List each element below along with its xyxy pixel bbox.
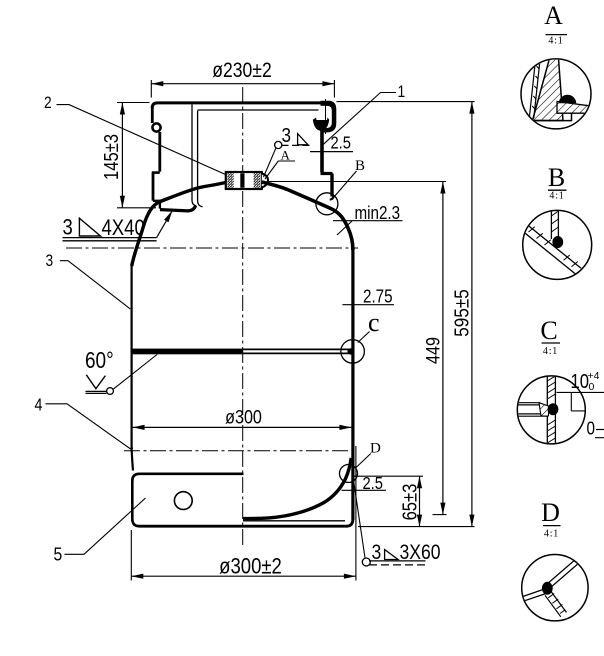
foot ring bottom-right corner bbox=[347, 519, 353, 526]
weld symbol 60° (girth seam) bbox=[85, 348, 157, 394]
fillet weld bead (black) bbox=[559, 95, 577, 103]
boss weld bump bbox=[262, 174, 268, 188]
shroud right wall lower bbox=[330, 174, 333, 197]
shroud inner silhouette line 2 bbox=[198, 111, 203, 207]
lower shell wall band bbox=[546, 375, 548, 445]
boss bore bar bbox=[240, 173, 244, 187]
bottom dome plate (double line, upper right) bbox=[547, 556, 581, 585]
shroud bottom notch bbox=[153, 201, 160, 209]
svg-text:3: 3 bbox=[282, 125, 292, 148]
shroud top edge bbox=[152, 103, 327, 108]
detail view C bbox=[516, 316, 604, 445]
dim 145±3 bbox=[100, 103, 156, 208]
grip bar cup bbox=[313, 118, 329, 131]
lower horizontal dash-dot axis bbox=[124, 450, 355, 452]
svg-text:60°: 60° bbox=[85, 348, 114, 373]
weld symbol 3/3X60 (foot to dome) bbox=[354, 480, 441, 566]
balloon 3 bbox=[46, 252, 131, 309]
dim 595±5 bbox=[337, 102, 475, 527]
detail circle D marker bbox=[340, 465, 358, 483]
body right wall bbox=[351, 248, 354, 520]
detail label B leader bbox=[334, 158, 366, 198]
svg-text:65±3: 65±3 bbox=[398, 484, 421, 521]
detail circle C marker bbox=[341, 340, 365, 364]
svg-text:4:1: 4:1 bbox=[548, 36, 563, 47]
foot ring inner line (exterior half) bbox=[243, 520, 345, 522]
bottom dome silhouette bbox=[243, 458, 351, 519]
detail view D bbox=[520, 498, 588, 621]
foot ring bottom-left corner bbox=[132, 519, 139, 526]
svg-text:5: 5 bbox=[54, 543, 63, 565]
thickness callout 2.75 (shell) bbox=[342, 286, 394, 307]
balloon 4 bbox=[35, 396, 132, 449]
svg-text:2: 2 bbox=[44, 94, 52, 112]
foot ring wall band (ladder, lower right) bbox=[551, 591, 567, 613]
svg-text:A: A bbox=[281, 148, 291, 163]
boss knurl right bbox=[254, 173, 260, 188]
weld nugget bbox=[548, 403, 559, 415]
girth weld seam left (section) bbox=[132, 349, 243, 355]
svg-text:1: 1 bbox=[398, 83, 406, 101]
svg-text:2.5: 2.5 bbox=[331, 133, 351, 153]
shroud left curled edge bbox=[152, 123, 160, 131]
joggle wedge bbox=[539, 403, 549, 416]
svg-text:10: 10 bbox=[571, 370, 589, 393]
weld symbol 3 (boss weld, at A) bbox=[264, 125, 312, 177]
svg-text:A: A bbox=[544, 1, 563, 30]
svg-text:B: B bbox=[548, 163, 565, 192]
thickness callout 2.5 (bottom dome) bbox=[342, 474, 387, 494]
shroud right step bbox=[321, 172, 333, 175]
svg-text:c: c bbox=[368, 308, 380, 337]
valve boss body bbox=[226, 172, 262, 189]
detail label c leader bbox=[358, 308, 380, 343]
body left skirt flare bbox=[132, 447, 133, 471]
svg-text:449: 449 bbox=[422, 337, 444, 364]
bottom dome plate (double line, lower left) bbox=[520, 589, 545, 598]
dome plate band (ladder) bbox=[525, 223, 582, 269]
top dome left silhouette bbox=[132, 183, 226, 267]
body left wall bbox=[131, 264, 133, 449]
grip hole center mark bbox=[325, 99, 327, 134]
balloon 1 bbox=[323, 83, 405, 145]
detail view A bbox=[521, 1, 591, 129]
detail view B bbox=[521, 163, 592, 279]
svg-text:595±5: 595±5 bbox=[451, 289, 474, 336]
svg-text:ø230±2: ø230±2 bbox=[212, 59, 271, 83]
dome plate strip (section) bbox=[557, 102, 591, 114]
foot ring left edge bbox=[131, 480, 134, 520]
svg-text:0: 0 bbox=[587, 418, 595, 439]
weld nugget bbox=[552, 236, 563, 248]
svg-text:145±3: 145±3 bbox=[100, 134, 123, 180]
shroud wall band (ladder) bbox=[550, 209, 552, 239]
dim 65±3 bbox=[355, 476, 424, 526]
centerline vertical axis bbox=[242, 87, 244, 547]
shroud left inner wall bbox=[158, 132, 161, 172]
weld nugget bbox=[542, 582, 553, 595]
svg-text:4:1: 4:1 bbox=[549, 191, 564, 202]
svg-text:3: 3 bbox=[46, 252, 54, 270]
svg-text:4:1: 4:1 bbox=[543, 346, 558, 357]
joggle depth annotation lines bbox=[557, 391, 604, 393]
foot vent hole bbox=[174, 492, 192, 510]
shroud left step bbox=[152, 171, 160, 174]
foot ring bottom edge bbox=[139, 525, 348, 528]
svg-text:ø300: ø300 bbox=[225, 406, 262, 428]
detail label A with leader bbox=[265, 148, 295, 180]
svg-text:2.75: 2.75 bbox=[363, 286, 393, 307]
dim ø230±2 bbox=[151, 59, 334, 98]
dim ø300±2 bbox=[131, 446, 356, 581]
balloon 5 bbox=[54, 498, 146, 565]
detail label D leader bbox=[355, 441, 381, 469]
foot ring top edge bbox=[139, 472, 244, 475]
foot ring top-left corner bbox=[132, 474, 139, 481]
shroud foot wedge (section) bbox=[533, 59, 564, 121]
girth weld seam right (double line) bbox=[243, 348, 353, 350]
shroud inner wall lines bbox=[529, 60, 535, 118]
dim ø300 inner bbox=[133, 406, 352, 430]
shroud left outer wall bbox=[151, 106, 154, 123]
girth weld nugget at right wall bbox=[347, 348, 353, 354]
svg-text:ø300±2: ø300±2 bbox=[219, 554, 282, 579]
top dome right silhouette bbox=[262, 182, 353, 250]
svg-text:4X40: 4X40 bbox=[102, 215, 145, 240]
svg-text:C: C bbox=[540, 316, 557, 345]
boss knurl left bbox=[227, 173, 233, 188]
upper horizontal dash-dot axis (shroud weld plane) bbox=[66, 247, 358, 249]
shroud inner silhouette line 1 bbox=[192, 105, 196, 206]
detail circle B marker bbox=[316, 193, 338, 215]
shroud bottom edge bbox=[160, 205, 196, 211]
shroud right wall upper bbox=[320, 131, 324, 173]
svg-text:3: 3 bbox=[63, 215, 73, 240]
weld symbol 3/4X40 (shroud to dome) bbox=[63, 209, 175, 241]
svg-text:4: 4 bbox=[35, 396, 43, 414]
upper shell wall (horizontal, joggled) bbox=[516, 402, 540, 404]
svg-text:D: D bbox=[370, 441, 381, 457]
shroud left lower wall bbox=[152, 173, 155, 201]
svg-text:0: 0 bbox=[589, 381, 595, 393]
shroud top inner line bbox=[198, 109, 319, 111]
thickness callout 2.5 (shroud) bbox=[310, 133, 353, 153]
thickness callout min2.3 (top dome) bbox=[333, 203, 403, 235]
dome bend step outline bbox=[533, 113, 572, 120]
shroud rolled hook (grip) bbox=[321, 101, 337, 133]
svg-text:D: D bbox=[541, 498, 560, 527]
dim 449 bbox=[269, 182, 447, 515]
balloon 2 bbox=[44, 94, 226, 175]
svg-text:4:1: 4:1 bbox=[544, 529, 559, 540]
